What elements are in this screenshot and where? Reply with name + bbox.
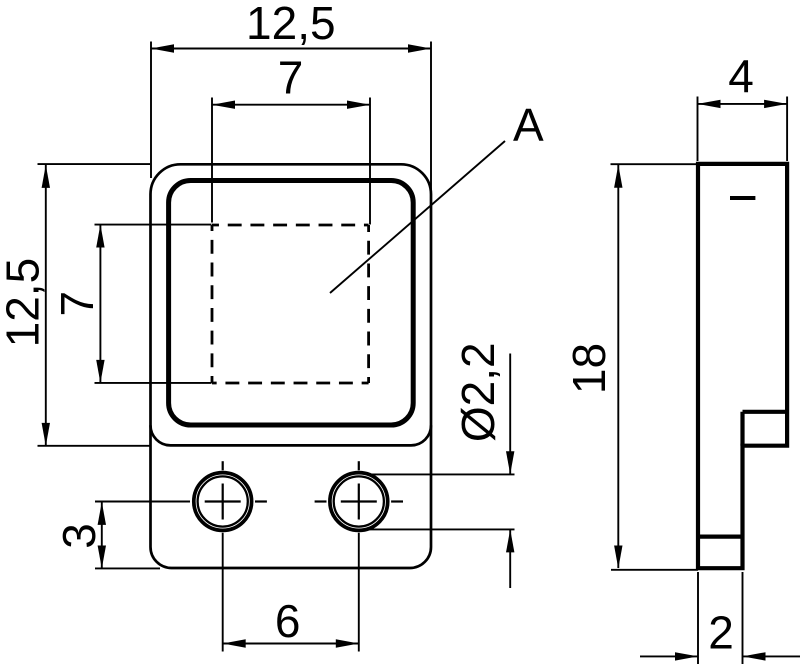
- side view mark dash: [730, 196, 755, 200]
- svg-text:6: 6: [275, 595, 301, 647]
- dimension 7 left: [51, 225, 212, 383]
- dimension 12,5 left: [0, 164, 150, 446]
- dimension 4 top side view: [698, 50, 788, 161]
- hole right inner circle: [334, 476, 384, 526]
- svg-text:A: A: [513, 99, 544, 151]
- hole right outer circle: [330, 473, 388, 531]
- svg-text:12,5: 12,5: [246, 0, 336, 49]
- label A leader line: [330, 141, 505, 293]
- dimension 18 side view: [563, 164, 698, 570]
- svg-text:2: 2: [708, 606, 734, 658]
- svg-text:4: 4: [728, 50, 754, 102]
- svg-text:Ø2,2: Ø2,2: [452, 342, 504, 442]
- side view outline: [698, 164, 787, 568]
- hole right crosshair: [315, 461, 403, 519]
- hole left outer circle: [194, 473, 252, 531]
- dimension 3 left: [53, 502, 190, 569]
- side view step edge: [743, 412, 788, 446]
- hole left crosshair: [205, 461, 267, 519]
- hole left inner circle: [198, 476, 248, 526]
- svg-text:3: 3: [53, 523, 105, 549]
- dimension 2 bottom side view: [640, 572, 800, 664]
- dimension 7 top: [212, 51, 370, 224]
- svg-text:7: 7: [51, 291, 103, 317]
- front view part outline: [151, 164, 432, 568]
- dashed square A: [212, 225, 369, 383]
- svg-text:12,5: 12,5: [0, 258, 49, 348]
- front view screen bezel thick rounded rect: [169, 181, 414, 426]
- svg-text:7: 7: [278, 51, 304, 103]
- side view foot edge: [698, 534, 743, 538]
- dimension 12,5 top: [151, 0, 431, 192]
- dimension diameter 2,2: [369, 342, 515, 588]
- svg-text:18: 18: [563, 343, 615, 394]
- front view screen bottom edge: [151, 425, 432, 445]
- dimension 6 bottom: [223, 533, 359, 652]
